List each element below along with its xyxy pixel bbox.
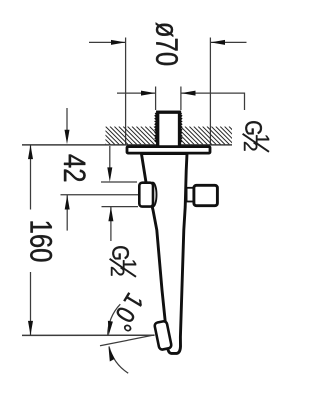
side outlet bottom extension line	[102, 206, 139, 208]
flange escutcheon	[127, 147, 210, 154]
label 42	[64, 155, 86, 182]
arrow 160 bottom (points down)	[28, 321, 33, 336]
arrow 42 bottom (points up)	[65, 195, 70, 210]
arrow side outlet top (points down)	[107, 167, 112, 182]
side outlet dim lower arrow line	[110, 207, 112, 241]
side outlet top extension line	[101, 181, 137, 183]
arrow pipe dim right (points left)	[181, 91, 196, 96]
arrow 160 top (points up)	[28, 145, 33, 160]
threaded pipe above ceiling	[158, 112, 180, 150]
label 10 degrees	[111, 292, 147, 332]
arrow angle upper (points down at horizontal line)	[108, 321, 113, 336]
pipe thread serration left	[155, 113, 156, 142]
bottom outlet lug (tilted)	[154, 321, 172, 350]
extension line ø70 right	[209, 38, 211, 146]
right knob	[194, 185, 218, 205]
angle arc lower	[109, 346, 128, 373]
dimension ø70 left line	[22, 38, 247, 374]
dimension G1/2 pipe left line	[117, 92, 156, 94]
arrowheads	[28, 40, 225, 362]
arrow side outlet bottom (points up)	[108, 207, 113, 222]
label 160	[30, 221, 52, 261]
side outlet boss (ellipse behind nut)	[149, 183, 157, 207]
arrow pipe dim left (points right)	[141, 91, 156, 96]
ceiling hatch left	[88, 127, 172, 145]
dimension ø70 right line	[211, 41, 247, 43]
label G1/2 left (side outlet thread)	[110, 246, 137, 277]
dimension 160 lower segment	[30, 272, 32, 336]
angle arc upper	[108, 304, 121, 335]
ceiling hatch right	[163, 127, 247, 145]
extension line ø70 left	[125, 38, 127, 146]
side outlet centerline extension	[61, 194, 140, 196]
10 degree slanted line	[100, 335, 155, 346]
label ø70	[156, 22, 178, 65]
ceiling reference line	[22, 144, 232, 146]
arrow ø70 left (points right)	[111, 40, 126, 45]
shower arm body	[141, 154, 187, 354]
bottom reference line	[22, 334, 155, 336]
right knob neck	[187, 188, 195, 202]
dimension 42 lower segment	[66, 195, 68, 231]
arrow angle lower (points up at slanted line)	[109, 347, 115, 362]
dimension 42 upper segment	[66, 108, 68, 133]
arrow 42 top (points down)	[65, 130, 70, 145]
side outlet nut	[139, 183, 153, 207]
pipe thread serration right	[180, 113, 181, 142]
label G1/2 right (ceiling thread)	[243, 121, 270, 152]
dimension G1/2 pipe right line with corner down	[181, 93, 245, 110]
arrow ø70 right (points left)	[211, 40, 226, 45]
extension line pipe right	[180, 87, 182, 111]
extension line pipe left	[155, 87, 157, 111]
side outlet dim upper arrow line	[109, 146, 111, 170]
dimension 160 upper segment	[30, 145, 32, 210]
